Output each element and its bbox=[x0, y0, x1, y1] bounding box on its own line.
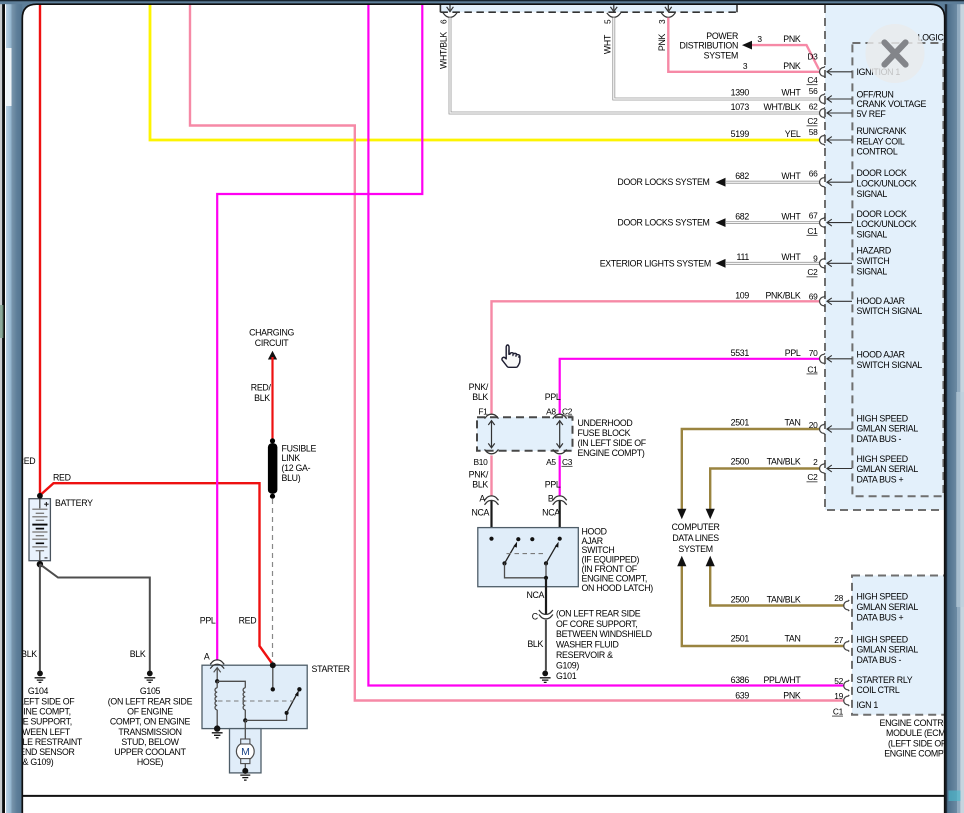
svg-text:2: 2 bbox=[813, 457, 818, 467]
ECM pin 70 bbox=[820, 353, 826, 364]
svg-text:(LEFT SIDE OF: (LEFT SIDE OF bbox=[888, 738, 947, 748]
svg-text:BATTERY: BATTERY bbox=[55, 498, 93, 508]
svg-text:TAN: TAN bbox=[784, 418, 800, 428]
wire PNK 3 from pin 3 to ECM D3 bbox=[668, 18, 819, 72]
ECM label STARTER RLY COIL CTRL bbox=[857, 675, 913, 695]
label RED/BLK bbox=[251, 382, 272, 403]
arrow down to computer data lines bbox=[706, 509, 715, 519]
close button (X) bbox=[866, 24, 925, 83]
svg-text:BLK: BLK bbox=[254, 393, 270, 403]
svg-text:C1: C1 bbox=[833, 707, 844, 717]
svg-text:ENGINE CONTROL: ENGINE CONTROL bbox=[880, 718, 955, 728]
ECM label HAZARD SWITCH SIGNAL bbox=[857, 246, 891, 277]
switch linkage dashed bbox=[507, 553, 546, 555]
svg-text:TAN: TAN bbox=[784, 634, 800, 644]
solenoid coil 2 bbox=[243, 688, 245, 710]
pin A of hood ajar switch bbox=[485, 496, 499, 500]
svg-text:IGN 1: IGN 1 bbox=[857, 700, 879, 710]
svg-text:70: 70 bbox=[809, 348, 818, 358]
svg-text:BLK: BLK bbox=[527, 639, 543, 649]
svg-text:CONTROL: CONTROL bbox=[857, 147, 898, 157]
pin B of hood ajar switch bbox=[553, 496, 567, 500]
svg-text:WHT: WHT bbox=[781, 171, 801, 181]
wire BLK battery negative to G104 bbox=[39, 564, 41, 671]
svg-text:BLK: BLK bbox=[472, 392, 488, 402]
hood ajar switch box bbox=[478, 528, 579, 587]
svg-text:HOSE): HOSE) bbox=[137, 757, 164, 767]
svg-text:LINK: LINK bbox=[282, 453, 301, 463]
label CHARGING CIRCUIT bbox=[249, 327, 294, 348]
svg-text:SYSTEM: SYSTEM bbox=[704, 50, 738, 60]
ECM label DOOR LOCK LOCK/UNLOCK SIGNAL (66) bbox=[857, 168, 917, 199]
dashed unnamed wire from fusible link to starter bbox=[272, 499, 274, 663]
svg-text:28: 28 bbox=[834, 593, 843, 603]
svg-text:OFF/RUN: OFF/RUN bbox=[857, 90, 894, 100]
label G104 (location text, clipped by frame) bbox=[0, 686, 83, 767]
svg-text:52: 52 bbox=[834, 676, 843, 686]
svg-text:WASHER FLUID: WASHER FLUID bbox=[556, 640, 619, 650]
arrow to power distribution system bbox=[742, 41, 752, 50]
label COMPUTER DATA LINES SYSTEM bbox=[672, 522, 720, 554]
svg-text:2501: 2501 bbox=[731, 634, 750, 644]
svg-text:DOOR LOCKS SYSTEM: DOOR LOCKS SYSTEM bbox=[617, 218, 709, 228]
svg-text:5531: 5531 bbox=[731, 348, 750, 358]
svg-text:FUSIBLE: FUSIBLE bbox=[282, 443, 317, 453]
fuse pin A5 (arc) bbox=[553, 449, 567, 453]
svg-text:PNK/BLK: PNK/BLK bbox=[765, 291, 800, 301]
label PNK/BLK (above fuse) bbox=[469, 382, 489, 402]
ECM label RUN/CRANK RELAY COIL CONTROL bbox=[857, 126, 907, 156]
wire NCA pin B to switch bbox=[559, 501, 561, 539]
svg-text:M: M bbox=[241, 746, 249, 758]
wire PPL 5531 hood ajar (pin 70 to fuse A8) bbox=[560, 359, 820, 414]
svg-text:PPL: PPL bbox=[785, 348, 801, 358]
svg-text:BETWEEN WINDSHIELD: BETWEEN WINDSHIELD bbox=[556, 629, 652, 639]
wire BLK pin C to G101 bbox=[545, 620, 547, 671]
svg-text:C1: C1 bbox=[807, 364, 818, 374]
svg-text:C2: C2 bbox=[807, 116, 818, 126]
svg-text:3: 3 bbox=[757, 34, 762, 44]
battery positive terminal dot bbox=[37, 493, 43, 499]
switch common wiring bbox=[505, 563, 547, 577]
svg-text:WHT/BLK: WHT/BLK bbox=[763, 102, 800, 112]
starter box bbox=[202, 665, 307, 728]
svg-text:UPPER COOLANT: UPPER COOLANT bbox=[114, 747, 186, 757]
svg-text:PNK: PNK bbox=[783, 34, 801, 44]
svg-text:G105: G105 bbox=[140, 686, 161, 696]
svg-text:C: C bbox=[532, 612, 539, 622]
svg-text:C2: C2 bbox=[807, 472, 818, 482]
svg-text:WHT: WHT bbox=[781, 252, 801, 262]
wire TAN/BLK 2500 gmlan (pin 2) bbox=[710, 469, 820, 510]
svg-text:109: 109 bbox=[735, 291, 749, 301]
ECM pin 52 bbox=[844, 680, 850, 691]
svg-text:C4: C4 bbox=[807, 75, 818, 85]
svg-text:111: 111 bbox=[737, 252, 750, 262]
wire WHT 682 door locks (pin 66) bbox=[726, 181, 820, 184]
switch blade left bbox=[505, 546, 515, 563]
svg-text:& G109): & G109) bbox=[23, 757, 54, 767]
ECM pin 58 bbox=[820, 135, 825, 146]
svg-text:58: 58 bbox=[809, 127, 818, 137]
svg-text:GMLAN SERIAL: GMLAN SERIAL bbox=[857, 645, 919, 655]
svg-text:PNK: PNK bbox=[783, 690, 801, 700]
svg-text:(ON LEFT REAR SIDE: (ON LEFT REAR SIDE bbox=[556, 608, 641, 618]
svg-text:STUD, BELOW: STUD, BELOW bbox=[121, 737, 179, 747]
arrow up from computer data lines bbox=[677, 556, 686, 566]
svg-text:SIGNAL: SIGNAL bbox=[857, 266, 888, 276]
ECM pin 56 bbox=[820, 94, 826, 105]
battery bbox=[29, 499, 50, 564]
ground G104 bbox=[37, 671, 43, 677]
wire NCA switch common to pin C bbox=[545, 578, 547, 615]
svg-text:6: 6 bbox=[439, 19, 449, 24]
ECM pin 19 bbox=[844, 695, 850, 706]
svg-text:COMPT, ON ENGINE: COMPT, ON ENGINE bbox=[110, 717, 191, 727]
svg-text:CIRCUIT: CIRCUIT bbox=[255, 338, 289, 348]
svg-text:HIGH SPEED: HIGH SPEED bbox=[857, 634, 908, 644]
arrow up from computer data lines bbox=[706, 556, 715, 566]
svg-text:COIL CTRL: COIL CTRL bbox=[857, 685, 900, 695]
svg-text:F1: F1 bbox=[478, 406, 488, 416]
wire PNK branch to power distribution system bbox=[752, 45, 819, 69]
svg-text:YEL: YEL bbox=[785, 129, 801, 139]
ECM pin 27 bbox=[844, 641, 850, 652]
svg-text:TRANSMISSION: TRANSMISSION bbox=[118, 727, 181, 737]
mouse cursor (pointing hand) bbox=[502, 345, 520, 367]
svg-text:NCA: NCA bbox=[471, 507, 489, 517]
svg-text:C3: C3 bbox=[562, 457, 573, 467]
svg-text:ENGINE COMPT): ENGINE COMPT) bbox=[578, 448, 645, 458]
ECM label HIGH SPEED GMLAN SERIAL DATA BUS + (2) bbox=[857, 454, 919, 484]
window frame right bar bbox=[945, 0, 964, 813]
starter switch blade bbox=[287, 695, 297, 713]
starter switch lower path bbox=[245, 713, 286, 720]
pin 3 of power distribution box bbox=[667, 4, 669, 10]
svg-text:HOOD AJAR: HOOD AJAR bbox=[857, 296, 905, 306]
wire PNK 639 ignition 1 feed bbox=[190, 5, 845, 701]
svg-text:62: 62 bbox=[809, 101, 818, 111]
svg-text:HIGH SPEED: HIGH SPEED bbox=[857, 454, 908, 464]
svg-text:OF CORE SUPPORT,: OF CORE SUPPORT, bbox=[556, 619, 638, 629]
svg-text:SWITCH SIGNAL: SWITCH SIGNAL bbox=[857, 306, 923, 316]
wire YEL 5199 run/crank relay coil control bbox=[150, 5, 820, 141]
wire BLK battery negative branch to G105 bbox=[40, 564, 150, 671]
wire PPL fuse A5 to hood switch pin B bbox=[559, 455, 561, 496]
wire WHT 1390 from pin 5 to ECM 56 bbox=[614, 18, 820, 100]
fuse pin F1 (arc) bbox=[485, 414, 499, 418]
ECM upper panel background bbox=[825, 5, 945, 510]
svg-text:SWITCH: SWITCH bbox=[857, 256, 890, 266]
svg-text:SIGNAL: SIGNAL bbox=[857, 189, 888, 199]
starter solenoid internals bbox=[214, 662, 302, 728]
pin C bbox=[539, 610, 553, 614]
svg-text:B: B bbox=[548, 494, 554, 504]
svg-text:ENGINE COMPT,: ENGINE COMPT, bbox=[884, 749, 950, 759]
svg-text:(12 GA-: (12 GA- bbox=[282, 463, 311, 473]
svg-text:DATA LINES: DATA LINES bbox=[672, 533, 719, 543]
svg-text:HOOD AJAR: HOOD AJAR bbox=[857, 350, 905, 360]
svg-text:UNDERHOOD: UNDERHOOD bbox=[578, 418, 633, 428]
svg-text:RED: RED bbox=[239, 616, 257, 626]
svg-text:EXTERIOR LIGHTS SYSTEM: EXTERIOR LIGHTS SYSTEM bbox=[600, 258, 711, 268]
ECM label HOOD AJAR SWITCH SIGNAL (70) bbox=[857, 350, 923, 370]
svg-text:PNK/: PNK/ bbox=[469, 382, 489, 392]
fuse element arrows bbox=[491, 421, 493, 448]
label G105 (location text) bbox=[108, 686, 193, 767]
svg-text:3: 3 bbox=[657, 19, 667, 24]
svg-text:BLK: BLK bbox=[130, 649, 146, 659]
wire RED/BLK to fusible link bbox=[271, 357, 273, 441]
svg-text:COMPUTER: COMPUTER bbox=[672, 522, 720, 532]
svg-text:PPL: PPL bbox=[200, 616, 216, 626]
power distribution fuse box (top, cut off) bbox=[440, 4, 737, 12]
ECM label HIGH SPEED GMLAN SERIAL DATA BUS - (27) bbox=[857, 634, 919, 665]
svg-text:DISTRIBUTION: DISTRIBUTION bbox=[680, 41, 738, 51]
fuse pin A8 (arc) bbox=[553, 414, 567, 418]
svg-text:GMLAN SERIAL: GMLAN SERIAL bbox=[857, 602, 919, 612]
svg-text:G109): G109) bbox=[556, 660, 579, 670]
svg-text:TAN/BLK: TAN/BLK bbox=[767, 594, 801, 604]
svg-text:DATA BUS +: DATA BUS + bbox=[857, 612, 904, 622]
wire NCA pin A to switch bbox=[490, 501, 492, 539]
svg-text:(ON LEFT REAR SIDE: (ON LEFT REAR SIDE bbox=[108, 696, 193, 706]
svg-text:B10: B10 bbox=[473, 457, 488, 467]
svg-text:C2: C2 bbox=[562, 406, 573, 416]
label POWER DISTRIBUTION SYSTEM bbox=[680, 31, 738, 61]
label HOOD AJAR SWITCH bbox=[582, 526, 654, 592]
wire PPL 5531 to starter solenoid bbox=[217, 5, 422, 661]
window frame left bar bbox=[0, 0, 22, 813]
ECM pin 9 bbox=[820, 258, 826, 269]
wire TAN/BLK 2500 gmlan (pin 28) bbox=[710, 566, 844, 606]
ECM pin D3 bbox=[820, 66, 825, 77]
switch contacts bbox=[489, 537, 493, 541]
starter switch fixed contact from red feed bbox=[272, 665, 274, 689]
svg-text:STARTER: STARTER bbox=[312, 664, 350, 674]
svg-text:DOOR LOCK: DOOR LOCK bbox=[857, 209, 908, 219]
label G101 location text bbox=[556, 608, 652, 670]
svg-text:66: 66 bbox=[809, 169, 818, 179]
svg-text:RED/: RED/ bbox=[251, 382, 272, 392]
label ENGINE CONTROL MODULE (ECM) bbox=[880, 718, 955, 759]
junction dot red wire at starter bbox=[270, 662, 276, 668]
svg-text:BLK: BLK bbox=[21, 649, 37, 659]
svg-text:682: 682 bbox=[735, 171, 749, 181]
svg-text:RUN/CRANK: RUN/CRANK bbox=[857, 126, 907, 136]
svg-text:D3: D3 bbox=[807, 52, 818, 62]
wire WHT 682 door locks (pin 67) bbox=[726, 221, 820, 224]
svg-text:CRANK VOLTAGE: CRANK VOLTAGE bbox=[857, 99, 927, 109]
svg-text:PNK: PNK bbox=[657, 33, 667, 51]
ECM pin 2 bbox=[820, 463, 825, 474]
wire RED battery feed (left vertical) bbox=[39, 5, 41, 496]
svg-text:STARTER RLY: STARTER RLY bbox=[857, 675, 913, 685]
svg-text:2501: 2501 bbox=[731, 418, 750, 428]
svg-text:DATA BUS -: DATA BUS - bbox=[857, 434, 902, 444]
svg-text:A: A bbox=[479, 494, 485, 504]
svg-text:ON HOOD LATCH): ON HOOD LATCH) bbox=[582, 583, 654, 593]
svg-text:PPL: PPL bbox=[545, 479, 561, 489]
svg-text:9: 9 bbox=[813, 254, 818, 264]
ECM pin 62 bbox=[820, 108, 826, 119]
ECM logic inner box bbox=[852, 43, 943, 496]
svg-text:639: 639 bbox=[735, 690, 749, 700]
solenoid linkage (dashed) bbox=[218, 700, 294, 702]
svg-text:19: 19 bbox=[834, 691, 843, 701]
underhood fuse block bbox=[477, 417, 573, 451]
svg-text:PNK/: PNK/ bbox=[469, 470, 489, 480]
svg-text:OF ENGINE: OF ENGINE bbox=[127, 707, 173, 717]
svg-text:C1: C1 bbox=[807, 226, 818, 236]
svg-text:5: 5 bbox=[602, 19, 612, 24]
svg-text:CHARGING: CHARGING bbox=[249, 327, 294, 337]
svg-text:PPL/WHT: PPL/WHT bbox=[763, 675, 801, 685]
label PNK/BLK (below fuse) bbox=[469, 470, 489, 490]
svg-text:1390: 1390 bbox=[731, 88, 750, 98]
motor ground bbox=[244, 764, 246, 769]
svg-text:WHT: WHT bbox=[781, 88, 801, 98]
svg-text:682: 682 bbox=[735, 212, 749, 222]
window frame top bar bbox=[0, 0, 964, 19]
wire TAN 2501 gmlan (pin 27) bbox=[682, 566, 845, 647]
svg-text:HIGH SPEED: HIGH SPEED bbox=[857, 414, 908, 424]
svg-text:5199: 5199 bbox=[731, 129, 750, 139]
svg-text:G104: G104 bbox=[28, 686, 49, 696]
svg-text:C2: C2 bbox=[807, 267, 818, 277]
svg-text:RELAY COIL: RELAY COIL bbox=[857, 136, 905, 146]
svg-text:2500: 2500 bbox=[731, 457, 750, 467]
svg-text:A8: A8 bbox=[546, 406, 556, 416]
ECM label HOOD AJAR SWITCH SIGNAL (69) bbox=[857, 296, 923, 316]
svg-text:TAN/BLK: TAN/BLK bbox=[767, 457, 801, 467]
svg-text:(IN LEFT SIDE OF: (IN LEFT SIDE OF bbox=[578, 438, 647, 448]
svg-text:PNK: PNK bbox=[783, 61, 801, 71]
svg-text:SYSTEM: SYSTEM bbox=[678, 544, 712, 554]
wire to motor bbox=[244, 720, 246, 740]
label FUSIBLE LINK bbox=[282, 443, 317, 482]
ECM pin 20 bbox=[820, 424, 825, 435]
arrow down to computer data lines bbox=[677, 509, 686, 519]
svg-text:6386: 6386 bbox=[731, 675, 750, 685]
svg-text:3: 3 bbox=[743, 61, 748, 71]
ECM pin 28 bbox=[844, 600, 850, 611]
schematic page bottom border bbox=[22, 795, 944, 797]
ECM pin 69 bbox=[820, 296, 826, 307]
ECM pin 66 bbox=[820, 177, 826, 188]
svg-text:DOOR LOCKS SYSTEM: DOOR LOCKS SYSTEM bbox=[617, 177, 709, 187]
ECM label OFF/RUN CRANK VOLTAGE / 5V REF bbox=[857, 90, 927, 119]
starter motor box bbox=[230, 729, 262, 773]
svg-text:HAZARD: HAZARD bbox=[857, 246, 891, 256]
svg-text:WHT: WHT bbox=[781, 212, 801, 222]
wire PPL/WHT 6386 starter relay coil control bbox=[368, 5, 844, 686]
svg-text:GMLAN SERIAL: GMLAN SERIAL bbox=[857, 464, 919, 474]
wire TAN 2501 gmlan (pin 20) bbox=[682, 429, 820, 510]
pin A of starter bbox=[210, 660, 224, 664]
svg-text:MODULE (ECM): MODULE (ECM) bbox=[886, 728, 948, 738]
ECM lower panel background bbox=[852, 576, 948, 715]
svg-text:LOCK/UNLOCK: LOCK/UNLOCK bbox=[857, 219, 917, 229]
svg-text:SWITCH SIGNAL: SWITCH SIGNAL bbox=[857, 360, 923, 370]
svg-text:A5: A5 bbox=[546, 457, 556, 467]
svg-text:67: 67 bbox=[809, 211, 818, 221]
battery negative terminal dot bbox=[37, 561, 43, 567]
svg-text:RED: RED bbox=[53, 472, 71, 482]
svg-text:DATA BUS -: DATA BUS - bbox=[857, 655, 902, 665]
fuse pin B10 (arc) bbox=[485, 449, 499, 453]
svg-text:69: 69 bbox=[809, 291, 818, 301]
svg-text:WHT: WHT bbox=[602, 34, 612, 54]
ground G101 bbox=[542, 671, 548, 677]
svg-text:FUSE BLOCK: FUSE BLOCK bbox=[578, 428, 631, 438]
arrow up to charging circuit bbox=[268, 351, 277, 360]
svg-text:5V REF: 5V REF bbox=[857, 109, 887, 119]
switch blade right bbox=[546, 546, 556, 563]
solenoid coil 1 bbox=[216, 681, 218, 688]
svg-text:DATA BUS +: DATA BUS + bbox=[857, 474, 904, 484]
svg-text:20: 20 bbox=[809, 420, 818, 430]
wire WHT 111 exterior lights (pin 9) bbox=[726, 262, 820, 265]
svg-text:G101: G101 bbox=[556, 671, 577, 681]
svg-text:GMLAN SERIAL: GMLAN SERIAL bbox=[857, 424, 919, 434]
pin 5 of power distribution box bbox=[613, 4, 615, 10]
svg-text:BLU): BLU) bbox=[282, 473, 301, 483]
ground G105 bbox=[147, 671, 153, 677]
svg-text:NCA: NCA bbox=[542, 507, 560, 517]
pin 6 of power distribution box bbox=[449, 4, 451, 10]
motor M bbox=[236, 739, 254, 764]
ECM label HIGH SPEED GMLAN SERIAL DATA BUS - (20) bbox=[857, 414, 919, 444]
svg-text:56: 56 bbox=[809, 86, 818, 96]
svg-text:SIGNAL: SIGNAL bbox=[857, 230, 888, 240]
svg-text:NCA: NCA bbox=[526, 590, 544, 600]
svg-text:BLK: BLK bbox=[472, 479, 488, 489]
svg-text:2500: 2500 bbox=[731, 594, 750, 604]
svg-text:RESERVOIR &: RESERVOIR & bbox=[556, 650, 613, 660]
svg-text:27: 27 bbox=[834, 635, 843, 645]
svg-text:DOOR LOCK: DOOR LOCK bbox=[857, 168, 908, 178]
svg-text:WHT/BLK: WHT/BLK bbox=[439, 32, 449, 69]
wire PNK/BLK 109 hood ajar (pin 69 to fuse F1) bbox=[492, 301, 821, 414]
svg-text:PPL: PPL bbox=[545, 392, 561, 402]
ECM pin 67 bbox=[820, 217, 826, 228]
svg-text:A: A bbox=[204, 652, 210, 662]
svg-text:POWER: POWER bbox=[706, 31, 738, 41]
svg-text:HIGH SPEED: HIGH SPEED bbox=[857, 592, 908, 602]
label UNDERHOOD FUSE BLOCK bbox=[578, 418, 647, 458]
ECM label DOOR LOCK LOCK/UNLOCK SIGNAL (67) bbox=[857, 209, 917, 240]
svg-text:1073: 1073 bbox=[731, 102, 750, 112]
svg-text:LOCK/UNLOCK: LOCK/UNLOCK bbox=[857, 178, 917, 188]
wire PNK/BLK fuse B10 to hood switch pin A bbox=[490, 455, 492, 496]
wire RED branch to starter bbox=[40, 483, 273, 664]
wire WHT/BLK 1073 from pin 6 to ECM 62 bbox=[450, 18, 820, 114]
fusible link (12 GA BLU) bbox=[268, 438, 278, 499]
ECM label HIGH SPEED GMLAN SERIAL DATA BUS + (28) bbox=[857, 592, 919, 623]
solenoid coil ground bbox=[214, 725, 220, 731]
